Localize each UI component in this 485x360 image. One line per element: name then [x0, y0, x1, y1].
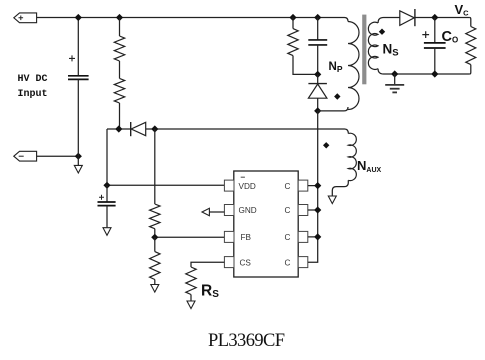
resistor RS current sense	[186, 267, 196, 295]
wire : VDD node to VDD pin	[107, 184, 224, 186]
resistor R1 startup upper	[119, 18, 121, 37]
svg-text:PL3369CF: PL3369CF	[208, 331, 285, 351]
wire : D1 cathode to output	[415, 17, 470, 19]
transformer primary winding NP	[348, 22, 359, 110]
pin GND	[224, 205, 234, 216]
capacitor CO output cap	[434, 18, 436, 43]
capacitor C1 input bulk cap	[77, 18, 79, 76]
pin FB	[224, 231, 234, 242]
diode D3 clamp	[317, 74, 319, 83]
wire : NAUX bottom to ground arrow	[332, 180, 348, 195]
resistor RL load	[470, 18, 471, 27]
svg-text:GND: GND	[239, 206, 257, 215]
wire : NS top to diode D1	[378, 18, 400, 24]
node : startup chain meets VDD rail	[115, 125, 122, 132]
node : D2 cathode-side junction (FB divider tap)	[151, 125, 158, 132]
svg-text:CS: CS	[240, 258, 252, 267]
ground : secondary earth ground	[394, 74, 396, 84]
pin C1r (collector)	[298, 180, 308, 191]
svg-text:FB: FB	[241, 233, 252, 242]
resistor R5 snubber	[289, 14, 296, 21]
transformer core	[362, 15, 366, 85]
svg-text:C: C	[285, 233, 291, 242]
ground arrow below negative rail	[77, 156, 79, 165]
pin CS	[224, 257, 234, 268]
node : primary bottom / collector node	[314, 107, 321, 114]
node : collector bus at C pin 2	[314, 206, 321, 213]
node : NAUX polarity dot	[323, 142, 329, 148]
transformer auxiliary winding NAUX	[348, 133, 356, 180]
node : VDD node	[103, 182, 110, 189]
svg-text:NS: NS	[383, 42, 399, 59]
wire : VDD node vertical	[106, 129, 108, 185]
pin C3r (collector)	[298, 231, 308, 242]
wire : CS pin to Rs	[191, 262, 224, 267]
svg-text:CO: CO	[442, 29, 459, 45]
wire : VDD rail row y=129	[107, 129, 348, 134]
svg-text:NP: NP	[329, 61, 343, 74]
svg-text:C: C	[285, 206, 291, 215]
resistor R3 FB divider upper	[154, 129, 156, 204]
resistor R2 startup lower	[114, 78, 124, 103]
wire : primary bottom link	[318, 107, 348, 111]
svg-text:NAUX: NAUX	[357, 158, 382, 174]
node : clamp node	[314, 71, 321, 78]
wire : NS bottom to output return	[378, 69, 470, 74]
pin VDD	[224, 180, 234, 191]
wire : snubber R bottom to clamp node	[293, 56, 318, 75]
terminal J2 negative input	[14, 151, 37, 161]
node : C1 top on rail	[75, 14, 82, 21]
wire : C pin stubs	[308, 186, 318, 237]
node : startup chain top	[116, 14, 123, 21]
svg-text:VC: VC	[455, 2, 470, 18]
capacitor C3 snubber	[314, 14, 321, 21]
svg-text:C: C	[285, 258, 291, 267]
resistor R4 FB divider lower	[154, 237, 156, 251]
node : secondary return junction	[391, 70, 398, 77]
svg-text:VDD: VDD	[239, 182, 256, 191]
wire : FB node to FB pin	[155, 236, 225, 238]
op-amp U1 PL3369CF controller body	[234, 171, 298, 277]
wire : collector bus from primary bottom to C pins	[308, 111, 318, 262]
pin 1 marker dash	[241, 176, 245, 178]
node : collector bus at C pin 1	[314, 182, 321, 189]
node : collector bus at C pin 3	[314, 233, 321, 240]
node : primary polarity dot	[334, 93, 340, 99]
diode D2 aux-to-VDD rectifier	[130, 122, 132, 136]
ground arrow below C2	[103, 228, 111, 236]
node : negative rail junction	[75, 153, 82, 160]
wire : top positive rail	[37, 18, 348, 22]
svg-text:RS: RS	[201, 283, 219, 301]
wire : negative rail	[37, 155, 79, 157]
diode D1 output rectifier	[400, 11, 415, 26]
node : CO bottom	[431, 70, 438, 77]
svg-text:HV DC: HV DC	[18, 74, 48, 85]
ground arrow below NAUX	[328, 196, 336, 204]
terminal J1 positive input	[14, 13, 37, 23]
node : NS polarity dot	[379, 29, 385, 35]
pin C2r (collector)	[298, 205, 308, 216]
svg-text:C: C	[285, 182, 291, 191]
ground arrow at GND pin	[209, 211, 224, 213]
pin C4r (collector)	[298, 257, 308, 268]
transformer secondary winding NS	[368, 22, 378, 69]
node : output node	[431, 14, 438, 21]
ground arrow below R4	[151, 285, 159, 293]
node : FB node	[151, 234, 158, 241]
capacitor C2 VDD bypass	[106, 185, 108, 201]
wire : between R1 and R2	[119, 61, 121, 78]
ground arrow below RS	[187, 301, 195, 309]
svg-text:Input: Input	[18, 89, 48, 100]
